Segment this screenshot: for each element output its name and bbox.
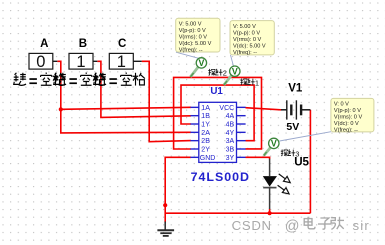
junction dot node A — [59, 107, 63, 111]
svg-text:2: 2 — [223, 69, 227, 78]
svg-text:V(rms): 0 V: V(rms): 0 V — [233, 37, 262, 43]
pin 2A — [190, 131, 198, 133]
probe readout box 3 — [331, 98, 374, 133]
junction dot LED node — [268, 211, 272, 215]
pin 2B — [190, 140, 198, 142]
svg-text:0: 0 — [36, 53, 45, 71]
pin name labels — [200, 105, 235, 162]
svg-text:3A: 3A — [226, 138, 235, 145]
probe readout box 1 — [176, 18, 220, 53]
svg-text:GND: GND — [200, 155, 216, 162]
svg-text:4B: 4B — [226, 122, 235, 129]
pin 1B — [190, 115, 198, 117]
wire 2Y over chip to 3B — [174, 77, 262, 149]
svg-text:@: @ — [285, 218, 300, 234]
pin VCC — [237, 106, 246, 108]
LED U5 — [263, 159, 290, 209]
svg-text:2A: 2A — [201, 130, 210, 137]
svg-text:3B: 3B — [226, 147, 235, 154]
probe readout box 2 — [230, 21, 274, 56]
probe 1 stem — [224, 75, 232, 85]
svg-text:V(p-p): 0 V: V(p-p): 0 V — [179, 28, 206, 34]
svg-text:3Y: 3Y — [226, 155, 235, 162]
pin GND — [190, 156, 198, 158]
probe 3 circle — [269, 138, 279, 148]
svg-text:V(dc): 0 V: V(dc): 0 V — [334, 121, 359, 127]
svg-text:1: 1 — [76, 53, 85, 71]
wire VCC to battery — [246, 108, 282, 110]
svg-text:5V: 5V — [286, 121, 299, 133]
svg-text:V: V — [271, 139, 277, 149]
wire LED cathode to rail — [269, 209, 271, 213]
svg-text:1A: 1A — [201, 105, 210, 112]
wire A to pin 2A — [61, 109, 191, 132]
op chip U1 74LS00D — [190, 102, 245, 162]
svg-text:sir: sir — [353, 218, 371, 233]
svg-text:V(freq): --: V(freq): -- — [179, 47, 203, 53]
svg-text:U1: U1 — [210, 86, 223, 97]
svg-text:74LS00D: 74LS00D — [191, 170, 250, 184]
pin 1Y — [190, 123, 198, 125]
svg-text:V(rms): 0 V: V(rms): 0 V — [334, 115, 363, 121]
LED arrow 1 — [279, 174, 291, 183]
svg-text:1Y: 1Y — [201, 122, 210, 129]
svg-text:2B: 2B — [201, 138, 210, 145]
probe 2 circle — [196, 58, 206, 68]
svg-text:4A: 4A — [226, 113, 235, 120]
svg-text:V(dc): 5.00 V: V(dc): 5.00 V — [179, 41, 212, 47]
wire GND pin to ground — [165, 157, 191, 222]
key hint text 键 = 空格 under switch B — [54, 72, 105, 85]
switch C — [109, 53, 141, 71]
probe leader line to box 2 — [231, 55, 234, 67]
probe 2 label 探针2 — [208, 69, 222, 76]
LED arrow 2 — [278, 185, 290, 194]
wire 1Y over chip to 3A — [181, 85, 254, 141]
battery V1 — [281, 100, 310, 119]
wire 3Y to LED — [246, 157, 270, 159]
probe 1 label 探针1 — [240, 79, 254, 86]
pin 4Y — [237, 131, 246, 133]
wire B to pin 1B — [97, 61, 191, 117]
pin 3A — [237, 140, 246, 142]
svg-text:V(freq): --: V(freq): -- — [334, 128, 358, 134]
svg-text:V(rms): 0 V: V(rms): 0 V — [179, 34, 208, 40]
wire A to pin 1A — [61, 107, 191, 109]
svg-text:C: C — [118, 38, 126, 50]
svg-text:V: V — [198, 58, 204, 68]
svg-text:V(dc): 5.00 V: V(dc): 5.00 V — [233, 43, 266, 49]
pin 1A — [190, 106, 198, 108]
pin 4A — [237, 115, 246, 117]
probe 2 stem — [190, 67, 198, 77]
wire A vertical from switch A — [57, 61, 61, 109]
probe leader line to box 3 — [280, 132, 332, 141]
svg-text:VCC: VCC — [219, 105, 234, 112]
svg-text:V(freq): --: V(freq): -- — [233, 50, 257, 56]
svg-text:V: V — [232, 66, 238, 76]
svg-text:4Y: 4Y — [226, 130, 235, 137]
svg-text:CSDN: CSDN — [232, 218, 272, 233]
svg-text:A: A — [40, 38, 48, 50]
svg-text:V1: V1 — [288, 82, 303, 94]
svg-text:1: 1 — [117, 53, 126, 71]
pin 3Y — [237, 156, 246, 158]
probe leader line to box 1 — [176, 52, 200, 58]
probe 1 circle — [230, 66, 240, 76]
switch A — [29, 53, 57, 71]
wire ground rail — [165, 212, 310, 214]
pin 4B — [237, 123, 246, 125]
wire battery negative down — [309, 110, 311, 213]
key hint text 键 = 空格 under switch C — [94, 72, 145, 85]
svg-text:V: 0 V: V: 0 V — [334, 102, 349, 108]
switch B — [69, 53, 97, 71]
probe 3 stem — [264, 147, 271, 155]
svg-text:1: 1 — [255, 78, 259, 87]
svg-text:V: 5.00 V: V: 5.00 V — [179, 21, 202, 27]
ground — [157, 222, 174, 236]
watermark CSDN — [232, 217, 370, 235]
svg-text:2Y: 2Y — [201, 147, 210, 154]
svg-text:3: 3 — [295, 149, 299, 158]
probe 3 label 探针3 — [281, 150, 295, 157]
svg-text:B: B — [79, 38, 87, 50]
svg-text:V(p-p): 0 V: V(p-p): 0 V — [233, 30, 260, 36]
svg-text:V(p-p): 0 V: V(p-p): 0 V — [334, 108, 361, 114]
junction dot ground node — [163, 203, 167, 207]
svg-text:1B: 1B — [201, 113, 210, 120]
pin 3B — [237, 148, 246, 150]
svg-text:V: 5.00 V: V: 5.00 V — [233, 24, 256, 30]
pin 2Y — [190, 148, 198, 150]
wire C to pin 2B — [142, 61, 191, 141]
key hint text 键 = 空格 under switch A — [14, 72, 65, 85]
